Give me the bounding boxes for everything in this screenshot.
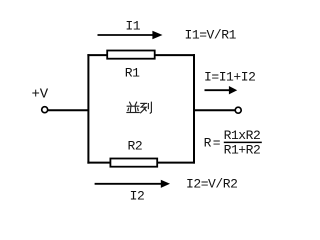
svg-text:I1: I1 [125,18,140,33]
current arrow I total [205,86,238,94]
svg-text:I1=V/R1: I1=V/R1 [185,28,237,43]
kanji 並 (parallel) [127,102,139,112]
wire: left terminal lead [48,109,89,111]
terminal +V input [42,107,48,113]
svg-text:R1xR2: R1xR2 [224,128,261,143]
wire: top branch horizontal [87,54,195,56]
resistor R1 [107,51,155,59]
svg-text:I=I1+I2: I=I1+I2 [204,69,255,84]
resistor R2 [110,159,157,167]
svg-text:I2: I2 [130,188,145,203]
svg-text:R1+R2: R1+R2 [224,143,261,158]
current arrow I1 [98,31,163,39]
wire: right vertical junction [193,54,195,164]
wire: bottom branch horizontal [87,162,195,164]
current arrow I2 [95,180,170,188]
svg-text:R1: R1 [125,66,140,81]
wire: left vertical junction [87,54,89,164]
svg-text:+V: +V [32,87,49,103]
svg-text:R=: R= [204,135,222,150]
terminal output [235,107,241,113]
kanji 列 (row) [141,102,152,113]
svg-text:I2=V/R2: I2=V/R2 [186,176,237,191]
wire: right terminal lead [194,109,235,111]
svg-text:R2: R2 [128,139,143,154]
formula R = R1xR2 / R1+R2 [204,128,262,158]
